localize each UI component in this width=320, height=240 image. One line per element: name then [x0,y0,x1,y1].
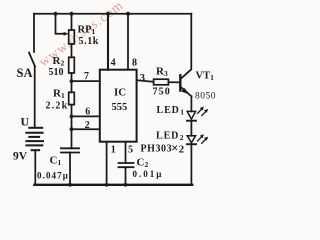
svg-text:8: 8 [132,58,137,69]
wire left rail upper [33,14,35,52]
node C1 bottom [68,183,72,187]
svg-text:LED2: LED2 [156,131,184,143]
wire emitter to LED1 [190,96,192,111]
wire top rail [34,13,191,15]
svg-text:555: 555 [112,102,128,113]
node pin1 bottom [105,183,109,187]
resistor R2 body [69,57,75,73]
wiper arrowhead [64,32,69,36]
svg-text:VT1: VT1 [196,71,215,83]
emitter arrowhead [181,88,190,95]
svg-text:750: 750 [153,87,171,98]
node pin6 junction [70,115,74,119]
wire C2 to bottom rail [125,167,127,185]
LED2 triangle [187,136,195,143]
svg-text:8050: 8050 [195,92,216,102]
wire bottom rail [34,184,192,186]
node pin4 on top rail [106,12,110,16]
wire pin 6 [72,115,100,117]
LED1 cathode bar [187,120,196,122]
IC 555 timer box [100,70,137,142]
wire LED1 to LED2 [190,121,192,136]
LED2 light arrows [198,134,209,143]
wire pin 1 down [106,142,108,185]
svg-text:5.1k: 5.1k [79,36,99,47]
svg-text:510: 510 [49,67,64,78]
svg-text:2: 2 [85,120,90,131]
svg-text:LED1: LED1 [157,105,185,117]
potentiometer RP1 [69,30,75,44]
wire R3 to base [168,81,179,83]
svg-text:R2: R2 [53,55,65,68]
node pin8 on top rail [126,12,130,16]
svg-text:2.2k: 2.2k [46,101,69,112]
svg-text:4: 4 [111,58,116,69]
svg-text:3: 3 [140,73,145,84]
resistor R3 body [154,79,169,85]
svg-text:RP1: RP1 [78,25,96,37]
wire left rail lower [34,150,36,185]
svg-text:SA: SA [17,66,33,80]
wire pin 7 [72,80,100,82]
LED1 light arrows [198,107,209,116]
wire wiper down [56,14,65,34]
wire RP1 to R2 [71,44,73,57]
svg-text:PH303: PH303 [141,143,173,154]
node pin7 junction [70,79,74,83]
node pin2 junction [70,127,74,131]
wire rail to RP1 [71,14,73,30]
node RP1 wiper on top rail [54,12,58,16]
svg-text:C2: C2 [137,157,149,170]
switch SA blade [29,53,35,67]
svg-text:C1: C1 [50,155,62,168]
wire pin 5 down [125,142,127,163]
svg-text:9V: 9V [13,151,28,163]
svg-text:5: 5 [128,145,133,156]
wire pin 4 [107,14,109,70]
capacitor C1 plates [61,147,79,149]
capacitor C2 plates [119,162,134,164]
svg-text:2: 2 [179,144,185,156]
resistor R1 body [69,92,75,104]
svg-text:0.047μ: 0.047μ [37,171,69,181]
svg-text:0.01μ: 0.01μ [133,169,164,179]
wire LED2 to bottom rail [190,144,192,185]
wire left rail mid [34,67,36,128]
svg-text:R3: R3 [156,66,168,79]
svg-text:6: 6 [85,106,90,117]
transistor collector [181,14,192,79]
svg-text:U: U [21,114,30,128]
wire pin 8 [127,14,129,70]
node C2 bottom [124,183,128,187]
wire R2 to R1 with node 7 branch [71,73,73,92]
wire pin 2 [72,128,100,130]
battery U plates [26,128,43,150]
svg-text:1: 1 [111,145,116,156]
transistor VT1 base bar [179,75,181,90]
wire pin 3 [137,80,154,82]
svg-text:×: × [171,141,178,155]
node RP1 top on top rail [70,12,74,16]
svg-text:7: 7 [84,71,89,82]
transistor emitter [181,87,192,96]
svg-text:IC: IC [114,87,126,99]
wire R1 down to C1 [71,105,73,149]
watermark [36,0,126,69]
LED1 triangle [187,111,195,119]
LED2 cathode bar [187,143,196,145]
wire C1 to bottom rail [69,153,71,185]
svg-text:R1: R1 [53,88,65,101]
